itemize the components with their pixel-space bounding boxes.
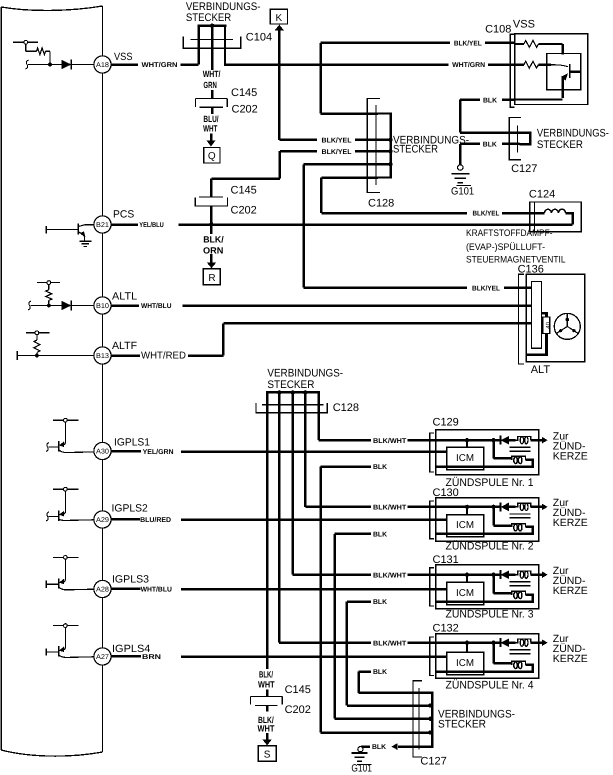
wire IGPLS1 YEL/GRN from A30 to C129 — [111, 450, 446, 453]
svg-text:ALTF: ALTF — [112, 340, 137, 352]
svg-text:STEUERMAGNETVENTIL: STEUERMAGNETVENTIL — [466, 255, 566, 266]
wire from K line to C128 — [279, 30, 317, 140]
ALT inner regulator box — [532, 282, 542, 349]
label VERBINDUNGS-STECKER (C128 right) — [393, 134, 469, 155]
transformer core in C129 — [510, 447, 531, 451]
wire IGPLS2 BLU/RED from A29 to C130 — [111, 518, 446, 521]
svg-text:BLK/WHT: BLK/WHT — [373, 571, 407, 579]
wire label BLK/WHT (C130) — [373, 504, 407, 512]
svg-text:KERZE: KERZE — [553, 517, 588, 529]
wire BLK from C127 to ground G101 (lower) — [361, 743, 421, 750]
ICM igniter box in C129 — [447, 447, 484, 469]
C128 pin2 wire BLK/YEL segment and junction — [355, 138, 393, 142]
label Zur ZUEND-KERZE (C130) — [553, 497, 588, 529]
ICM igniter box in C132 — [447, 652, 484, 674]
wire label BLK (C108) — [483, 97, 497, 104]
svg-text:K: K — [275, 13, 282, 24]
diode in C129 — [500, 436, 515, 445]
label VERBINDUNGS-STECKER (C104) — [186, 1, 261, 24]
label C128 (right) — [368, 198, 394, 210]
wire label WHT/RED — [141, 350, 186, 361]
svg-text:WHT/: WHT/ — [203, 69, 221, 79]
svg-text:BRN: BRN — [142, 654, 161, 661]
junction connector C128 (lower, 4-pin) — [256, 390, 327, 413]
svg-text:BLK/YEL: BLK/YEL — [472, 284, 501, 292]
signal name PCS — [113, 209, 134, 221]
label C127 (upper) — [511, 163, 537, 175]
wire label WHT/GRN (A18) — [142, 61, 178, 69]
svg-text:R: R — [208, 273, 215, 284]
coil secondary winding in C131 — [516, 571, 539, 578]
coil secondary winding in C129 — [516, 437, 539, 444]
svg-text:WHT/GRN: WHT/GRN — [142, 61, 178, 69]
svg-text:ICM: ICM — [456, 453, 474, 464]
diode in C132 — [500, 638, 515, 647]
wire BLK inside VSS — [515, 98, 563, 100]
ECM internal driver transistor at pin A28 — [46, 556, 94, 590]
svg-text:VERBINDUNGS-: VERBINDUNGS- — [267, 368, 343, 380]
EVAP purge solenoid valve C124 box — [535, 202, 582, 232]
C128 pin5 wire to C124 — [321, 178, 544, 214]
svg-text:WHT: WHT — [203, 124, 218, 134]
ECM pin B13 — [94, 347, 111, 364]
svg-text:BLK/YEL: BLK/YEL — [322, 136, 353, 144]
arrow to S — [262, 733, 272, 745]
svg-text:C127: C127 — [511, 163, 537, 175]
label ZÜNDSPULE Nr. 2 — [446, 540, 534, 553]
svg-text:ALT: ALT — [531, 364, 551, 376]
svg-text:BLK/WHT: BLK/WHT — [373, 504, 407, 512]
svg-text:IGPLS2: IGPLS2 — [112, 503, 148, 515]
svg-text:A30: A30 — [96, 449, 109, 456]
wire BLK/WHT rail in C130 — [436, 505, 501, 515]
svg-text:BLK: BLK — [372, 744, 386, 751]
svg-text:KERZE: KERZE — [553, 450, 588, 462]
label Zur ZUEND-KERZE (C132) — [553, 633, 588, 665]
wire label BLK/YEL (C136) — [472, 284, 501, 292]
svg-text:YEL/GRN: YEL/GRN — [143, 448, 174, 456]
svg-text:ORN: ORN — [203, 246, 223, 256]
connector bracket C108 — [510, 34, 514, 107]
wire label BLK (ground) — [372, 744, 386, 751]
svg-text:YEL/BLU: YEL/BLU — [139, 221, 164, 229]
label KRAFTSTOFFDAMPF-(EVAP-)SPUELLUFT-STEUERMAGNETVENTIL — [466, 228, 566, 266]
wire label BLK/WHT (C129) — [373, 437, 407, 445]
svg-text:STECKER: STECKER — [438, 718, 486, 730]
wire label BLK/YEL (C128 pin2) — [322, 136, 353, 144]
ECM pin A29 — [94, 511, 111, 528]
wire label WHT/GRN (C108) — [452, 61, 485, 69]
coil primary winding in C132 — [436, 643, 533, 672]
svg-text:KERZE: KERZE — [553, 653, 588, 665]
svg-text:VSS: VSS — [513, 18, 535, 30]
svg-text:BLK: BLK — [373, 669, 387, 676]
wire leg to C130 BLK/WHT — [305, 405, 436, 507]
wire ALTL WHT/BLU from B10 to C136 — [111, 304, 531, 307]
resistor in VSS (upper) — [515, 41, 563, 55]
label ZÜNDSPULE Nr. 4 — [446, 678, 534, 691]
ECM internal driver transistor at pin A30 — [46, 418, 94, 452]
junction node on PCS wire — [209, 222, 214, 227]
connector C104 (VERBINDUNGSSTECKER) — [183, 23, 241, 69]
wire label BLK/YEL (C128 pin3) — [322, 148, 353, 156]
labels C145 and C202 (PCS branch) — [231, 185, 257, 217]
connector bracket C124 — [530, 202, 535, 232]
svg-text:G101: G101 — [351, 763, 372, 775]
svg-text:BLK/YEL: BLK/YEL — [473, 210, 500, 218]
wire label BLU/ WHT — [203, 114, 219, 134]
ECM internal pull-up and diode at pin B10 — [28, 281, 94, 311]
arrow to spark plug from C131 — [539, 571, 548, 578]
label C124 — [529, 189, 555, 201]
vehicle speed sensor VSS box — [515, 34, 588, 105]
svg-text:WHT: WHT — [258, 679, 275, 689]
svg-text:ZÜNDSPULE Nr. 4: ZÜNDSPULE Nr. 4 — [446, 678, 534, 691]
label ALT — [531, 364, 551, 376]
wire label YEL/GRN — [143, 448, 174, 456]
svg-text:C124: C124 — [529, 189, 555, 201]
wire BLK/WHT leg to C145/C202 and S — [266, 405, 269, 669]
svg-text:ICM: ICM — [456, 520, 474, 531]
wire label WHT/BLU (B10) — [141, 302, 172, 310]
wire label BLK/ WHT (upper) — [258, 669, 275, 689]
connector pair C145 / C202 (lower) — [251, 689, 283, 711]
ALT field wiring — [527, 313, 552, 355]
signal name IGPLS4 — [112, 643, 151, 655]
svg-text:BLU/RED: BLU/RED — [140, 516, 171, 524]
label VERBINDUNGS-STECKER (lower C128) — [267, 368, 343, 392]
wire BLK from C132 to C127 — [359, 672, 421, 693]
svg-text:STECKER: STECKER — [267, 379, 314, 391]
wire BLK/YEL to C136 — [304, 286, 532, 289]
svg-text:C202: C202 — [232, 104, 258, 116]
svg-text:C127: C127 — [420, 755, 446, 767]
svg-text:B10: B10 — [96, 303, 109, 310]
svg-text:BLK/WHT: BLK/WHT — [373, 437, 407, 445]
connector pair C145 / C202 (below C104) — [195, 90, 227, 114]
wire IGPLS4 BRN from A27 to C132 — [111, 655, 446, 658]
svg-text:BLK/YEL: BLK/YEL — [454, 40, 482, 48]
coil secondary winding in C130 — [516, 503, 539, 510]
signal name ALTL — [112, 290, 137, 302]
svg-text:BLK: BLK — [483, 141, 497, 148]
wire BLK/WHT rail in C129 — [436, 438, 501, 447]
svg-text:C145: C145 — [285, 684, 311, 696]
svg-text:(EVAP-)SPÜLLUFT-: (EVAP-)SPÜLLUFT- — [466, 242, 545, 253]
svg-text:C128: C128 — [333, 402, 359, 414]
svg-text:KERZE: KERZE — [553, 585, 588, 597]
label C132 — [433, 622, 459, 634]
svg-text:STECKER: STECKER — [537, 139, 583, 151]
wire label BLK/ WHT (lower) — [258, 715, 275, 734]
ECM pin A30 — [94, 442, 111, 459]
svg-text:Q: Q — [208, 151, 216, 162]
wire PCS YEL/BLU from B21 to C124 — [111, 212, 572, 225]
label C130 — [433, 487, 459, 499]
coil primary winding in C131 — [436, 575, 533, 602]
ignition coil unit C130 (ZÜNDSPULE Nr. 2) — [430, 498, 539, 542]
ECM module boundary (left) — [1, 6, 102, 756]
signal name ALTF — [112, 340, 137, 352]
svg-text:BLK: BLK — [373, 531, 387, 538]
signal name VSS — [114, 51, 133, 63]
transformer core in C132 — [510, 650, 531, 654]
svg-text:40: 40 — [545, 321, 552, 328]
svg-text:WHT/RED: WHT/RED — [141, 350, 186, 361]
ECM pin A18 — [94, 56, 111, 73]
ground G101 (upper) — [451, 165, 474, 198]
labels C145 and C202 (lower) — [285, 684, 311, 716]
wire label BLK (C127 upper) — [483, 141, 497, 148]
label Zur ZUEND-KERZE (C129) — [553, 431, 588, 463]
terminal box Q — [204, 148, 220, 164]
arrow to spark plug from C129 — [539, 437, 548, 444]
connector pair C145 / C202 (PCS branch) — [195, 179, 227, 225]
wire BLK/WHT rail in C131 — [436, 573, 501, 583]
resistor in VSS (lower) — [515, 61, 551, 68]
svg-text:BLK/: BLK/ — [259, 669, 273, 679]
C128 pin4 wire to C136 — [304, 162, 393, 288]
wire label BLK (C130) — [373, 531, 387, 538]
label VERBINDUNGS-STECKER (C127 lower) — [438, 709, 515, 731]
connector C127 (lower) — [413, 681, 432, 757]
svg-text:ALTL: ALTL — [112, 290, 137, 302]
wire BLK from C129 to C127 — [321, 467, 433, 735]
ECM internal driver transistor at pin A27 — [46, 624, 94, 658]
ECM internal driver transistor at pin A29 — [46, 487, 94, 521]
svg-text:B13: B13 — [96, 353, 109, 360]
diode in C130 — [500, 502, 515, 511]
label C128 (lower) — [333, 402, 359, 414]
signal name IGPLS1 — [114, 437, 150, 449]
arrow to R — [207, 254, 216, 268]
VSS inner box — [547, 54, 581, 90]
svg-text:C202: C202 — [285, 704, 311, 716]
svg-text:ZÜNDSPULE Nr. 2: ZÜNDSPULE Nr. 2 — [446, 540, 534, 553]
wire label YEL/BLU — [139, 221, 164, 229]
label ZÜNDSPULE Nr. 3 — [446, 607, 534, 620]
label C108 — [485, 24, 511, 36]
wire label WHT/ GRN (below C104) — [203, 69, 221, 90]
svg-text:ICM: ICM — [456, 588, 474, 599]
wire BLK from C131 to C127 — [347, 602, 433, 708]
coil primary winding in C129 — [436, 440, 533, 466]
svg-text:BLK: BLK — [483, 97, 497, 104]
svg-text:PCS: PCS — [113, 209, 134, 221]
svg-text:C104: C104 — [246, 31, 272, 43]
arrow to Q — [206, 134, 215, 147]
wire label BLU/RED — [140, 516, 171, 524]
wire label BLK/WHT (C132) — [373, 639, 407, 647]
terminal box R — [203, 269, 220, 285]
ECM connector bus line — [102, 6, 104, 752]
wire BLK from C130 to C127 — [335, 534, 433, 721]
wire BLK/YEL from C108 to C128 — [321, 43, 515, 114]
wire leg to C131 BLK/WHT — [293, 405, 436, 575]
svg-text:BLK: BLK — [373, 464, 387, 471]
svg-text:A29: A29 — [96, 517, 109, 524]
svg-text:VSS: VSS — [114, 51, 133, 63]
svg-text:C132: C132 — [433, 622, 459, 634]
ignition coil unit C129 (ZÜNDSPULE Nr. 1) — [430, 430, 539, 475]
wire BLK/WHT rail in C132 — [436, 641, 501, 653]
svg-text:C131: C131 — [433, 554, 459, 566]
wire label WHT/BLU (IGPLS3) — [141, 585, 172, 593]
label C131 — [433, 554, 459, 566]
wire label BLK/ ORN — [203, 225, 224, 256]
label C136 — [518, 264, 544, 276]
arrow to spark plug from C132 — [539, 639, 548, 646]
terminal box S — [258, 746, 276, 762]
wire label BLK (C129) — [373, 464, 387, 471]
ECM internal pull-up resistor and diode at pin A18 — [13, 40, 94, 69]
svg-text:IGPLS3: IGPLS3 — [112, 574, 149, 586]
arrow to spark plug from C130 — [539, 504, 548, 511]
label VSS (sensor) — [513, 18, 535, 30]
signal name IGPLS3 — [112, 574, 149, 586]
ECM internal transistor at pin B21 with ground — [46, 224, 94, 247]
svg-text:STECKER: STECKER — [393, 144, 438, 156]
wire label BLK (C131) — [373, 599, 387, 606]
label VERBINDUNGS-STECKER (C127 upper) — [537, 128, 609, 151]
wire label BLK/YEL (C124) — [473, 210, 500, 218]
ECM pin A27 — [94, 648, 111, 665]
svg-text:A27: A27 — [96, 654, 109, 661]
ECM pin B10 — [94, 297, 111, 314]
wire leg to C129 BLK/WHT — [319, 405, 436, 440]
svg-text:S: S — [264, 750, 271, 761]
diode in C131 — [500, 570, 515, 579]
alternator ALT box — [526, 274, 585, 362]
wire WHT/GRN from C104 to C108 — [224, 63, 515, 66]
svg-text:BLU/: BLU/ — [203, 114, 219, 124]
wire label BRN — [142, 654, 161, 661]
ECM pin A28 — [94, 580, 111, 597]
svg-text:BLK/YEL: BLK/YEL — [322, 148, 353, 156]
svg-text:WHT/GRN: WHT/GRN — [452, 61, 485, 69]
ICM igniter box in C131 — [447, 582, 484, 604]
wire A18 WHT/GRN to connector C104 — [111, 63, 199, 66]
connector C128 (junction connector) — [367, 99, 390, 193]
coil secondary winding in C132 — [516, 639, 539, 646]
ignition coil unit C132 (ZÜNDSPULE Nr. 4) — [430, 634, 539, 678]
svg-text:WHT/BLU: WHT/BLU — [141, 302, 172, 310]
svg-text:WHT: WHT — [258, 724, 275, 734]
connector bracket C136 — [519, 274, 524, 364]
transformer core in C130 — [510, 514, 531, 518]
solenoid coil in C124 — [544, 209, 565, 213]
transformer core in C131 — [510, 582, 531, 586]
svg-text:G101: G101 — [451, 185, 474, 197]
ECM pin B21 — [94, 216, 111, 233]
ground G101 (lower) — [351, 747, 372, 775]
label C129 — [433, 417, 459, 429]
svg-text:A28: A28 — [96, 587, 109, 594]
svg-text:ZÜNDSPULE Nr. 3: ZÜNDSPULE Nr. 3 — [446, 607, 534, 620]
arrow to K — [275, 25, 284, 31]
wire BLK from C108 to C127 — [460, 100, 519, 133]
wire BLK from C127 to ground G101 — [460, 144, 519, 165]
wire label BLK/WHT (C131) — [373, 571, 407, 579]
svg-text:C130: C130 — [433, 487, 459, 499]
label ZÜNDSPULE Nr. 1 — [446, 476, 534, 489]
coil primary winding in C130 — [436, 507, 533, 534]
svg-text:BLK: BLK — [373, 599, 387, 606]
svg-text:STECKER: STECKER — [186, 12, 231, 24]
svg-text:C129: C129 — [433, 417, 459, 429]
label C127 (lower) — [420, 755, 446, 767]
wire label BLK/YEL (C108) — [454, 40, 482, 48]
VSS output transistor — [551, 64, 581, 98]
svg-text:BLK/WHT: BLK/WHT — [373, 639, 407, 647]
ECM internal pull-up resistor at pin B13 — [17, 331, 94, 360]
terminal box K — [270, 9, 287, 24]
alternator generator symbol — [554, 313, 580, 339]
svg-text:IGPLS1: IGPLS1 — [114, 437, 150, 449]
svg-text:A18: A18 — [96, 62, 109, 69]
svg-text:C128: C128 — [368, 198, 394, 210]
ICM igniter box in C130 — [447, 515, 484, 537]
connector C127 (upper) — [509, 117, 530, 159]
wire ALTF WHT/RED from B13 to C136 — [111, 323, 531, 355]
svg-text:BLK/: BLK/ — [203, 235, 224, 245]
wire label BLK (C132) — [373, 669, 387, 676]
svg-text:C202: C202 — [231, 205, 257, 217]
svg-text:WHT/BLU: WHT/BLU — [141, 585, 172, 593]
ignition coil unit C131 (ZÜNDSPULE Nr. 3) — [430, 565, 539, 609]
svg-text:KRAFTSTOFFDAMPF-: KRAFTSTOFFDAMPF- — [466, 228, 553, 239]
svg-text:B21: B21 — [96, 222, 109, 229]
svg-text:ICM: ICM — [456, 658, 474, 669]
svg-text:C145: C145 — [231, 185, 257, 197]
svg-text:C108: C108 — [485, 24, 511, 36]
wire leg to C132 BLK/WHT — [279, 405, 436, 643]
label Zur ZUEND-KERZE (C131) — [553, 565, 588, 597]
svg-text:GRN: GRN — [203, 80, 216, 90]
wire IGPLS3 WHT/BLU from A28 to C131 — [111, 588, 446, 591]
labels C145 and C202 (below C104) — [231, 87, 258, 116]
C128 pin3 wire BLK/YEL from C145 — [211, 149, 392, 178]
label C104 — [246, 31, 272, 43]
signal name IGPLS2 — [112, 503, 148, 515]
svg-text:C145: C145 — [231, 87, 257, 99]
